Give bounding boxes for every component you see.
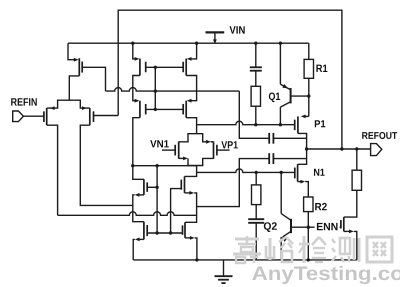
wire M1 gate to net A	[82, 67, 105, 91]
resistor R2	[304, 197, 313, 212]
capacitor C4	[248, 219, 264, 223]
wire cross pair top	[179, 134, 214, 144]
capacitor C1	[269, 133, 273, 144]
wire M9 source	[185, 191, 197, 222]
wire P1 source	[301, 115, 309, 119]
wire N1 source	[298, 180, 309, 197]
wire ENN source	[344, 230, 357, 260]
wire Q1 emitter	[279, 42, 282, 85]
wire P1 gate net	[197, 121, 295, 125]
wire REFIN to M6 gate	[23, 115, 44, 117]
wire M10 source	[133, 238, 144, 260]
wire rail to C3	[254, 42, 257, 68]
transistor Q1	[280, 84, 290, 107]
port REFIN	[13, 111, 24, 122]
arrow M7 source	[82, 106, 87, 110]
transistor M9	[181, 176, 184, 193]
wire M4 M5 gates	[146, 108, 184, 111]
label VN1	[150, 140, 169, 147]
label VIN	[230, 26, 245, 33]
wire lower gates	[147, 231, 182, 234]
transistor M3	[183, 59, 186, 76]
node net A bias tap	[154, 89, 157, 92]
transistor M6 input left	[44, 108, 47, 125]
wire M3 drain to M5	[186, 76, 196, 103]
label Q2	[264, 222, 277, 232]
power rail VIN wire	[68, 42, 309, 44]
wire block TR drain	[185, 166, 197, 177]
wire R2 to ground	[307, 212, 310, 262]
wire M6 drain down	[47, 125, 58, 215]
wire M8 source	[133, 193, 144, 222]
wire M7 drain down	[80, 125, 133, 205]
wire Q1 base	[291, 95, 309, 97]
wire Q2 collector	[280, 172, 282, 213]
wire M4 column to M8 drain	[133, 166, 144, 180]
node RC tap	[255, 171, 258, 174]
wire cascode to cap C2	[197, 159, 270, 207]
wire M2 source	[131, 42, 139, 61]
wire M11 source	[185, 236, 199, 262]
wire rail to R1	[308, 43, 310, 59]
label N1	[314, 169, 325, 176]
transistor VN1	[175, 142, 179, 159]
wire tap to R4	[255, 172, 257, 185]
transistor M2	[140, 59, 146, 76]
wire Q1 collector	[279, 107, 281, 125]
node cap tap	[254, 123, 257, 126]
transistor M4	[140, 101, 146, 118]
transistor P1	[295, 116, 298, 133]
resistor R3	[251, 86, 260, 106]
wire C1 to P1 drain	[273, 137, 306, 139]
wire M4 drain down	[133, 118, 140, 166]
wire R3 to P1 gate net	[255, 106, 257, 125]
wire net A to cap C1	[239, 91, 269, 138]
watermark line1	[233, 236, 392, 263]
label R2	[315, 203, 327, 210]
wire C2 to N1 drain	[273, 158, 306, 160]
wire W1 fold	[58, 212, 197, 215]
label P1	[315, 120, 326, 127]
wire VP1 gate	[217, 149, 230, 151]
resistor R5	[352, 170, 361, 190]
resistor R1	[304, 59, 313, 78]
ground symbol	[215, 260, 233, 283]
watermark line2	[252, 266, 400, 284]
transistor Q2	[281, 214, 291, 242]
wire M2 drain to M4	[133, 76, 140, 103]
wire feedback loop top	[118, 10, 342, 149]
transistor M8	[144, 179, 147, 195]
transistor M5	[183, 101, 186, 118]
label VP1	[221, 141, 237, 148]
wire M1 source from rail	[68, 43, 79, 61]
capacitor C2	[269, 153, 273, 164]
wire C4 to ground rail	[255, 223, 257, 260]
wire M3 source	[187, 42, 199, 61]
wire R4 to C4	[255, 205, 257, 219]
wire VN1 gate	[162, 149, 175, 151]
transistor M10	[144, 222, 147, 240]
wire R5 to ENN drain	[344, 190, 357, 217]
wire C3 to R3	[255, 71, 257, 87]
wire REFOUT to R5	[356, 149, 358, 170]
wire ground rail	[133, 259, 357, 261]
label ENN	[315, 221, 340, 231]
wire mirror gate vertical	[156, 166, 158, 233]
wire Q2 emitter	[280, 237, 282, 260]
wire cross pair bottom	[179, 157, 214, 166]
wire P1 drain	[298, 133, 307, 149]
resistor R4	[252, 185, 261, 205]
wire block drain link	[131, 164, 197, 167]
wire Q2 base to ENN gate	[291, 226, 341, 228]
label REFIN	[11, 98, 37, 105]
power symbol VIN	[206, 32, 225, 44]
port REFOUT	[371, 144, 382, 156]
transistor N1	[295, 164, 298, 181]
transistor M1	[79, 58, 82, 76]
wire net A	[106, 88, 240, 91]
capacitor C3	[250, 67, 262, 70]
node Q1 collector tap	[279, 123, 282, 126]
arrow M6 source	[50, 106, 55, 110]
wire bias vertical	[154, 67, 156, 109]
wire diff pair source hat	[47, 100, 90, 108]
node Q2 collector tap	[280, 171, 283, 174]
wire M9 gate	[171, 189, 182, 233]
label REFOUT	[362, 132, 397, 139]
transistor VP1	[214, 142, 217, 159]
label R1	[316, 65, 327, 72]
wire M2 M3 gates	[146, 66, 184, 69]
transistor M7 input right	[90, 108, 94, 125]
transistor ENN	[341, 217, 344, 231]
wire M8 gate	[147, 186, 159, 189]
wire REFOUT	[305, 147, 371, 150]
wire feedback to M7 gate	[94, 115, 119, 117]
wire N1 drain	[298, 149, 307, 164]
wire M1 drain to diff pair tail	[69, 76, 79, 100]
label Q1	[269, 92, 280, 102]
wire N1 gate net	[197, 169, 295, 172]
wire M5 drain down	[186, 118, 196, 134]
transistor M11	[183, 222, 186, 238]
wire R1 to P1 source	[307, 78, 310, 116]
